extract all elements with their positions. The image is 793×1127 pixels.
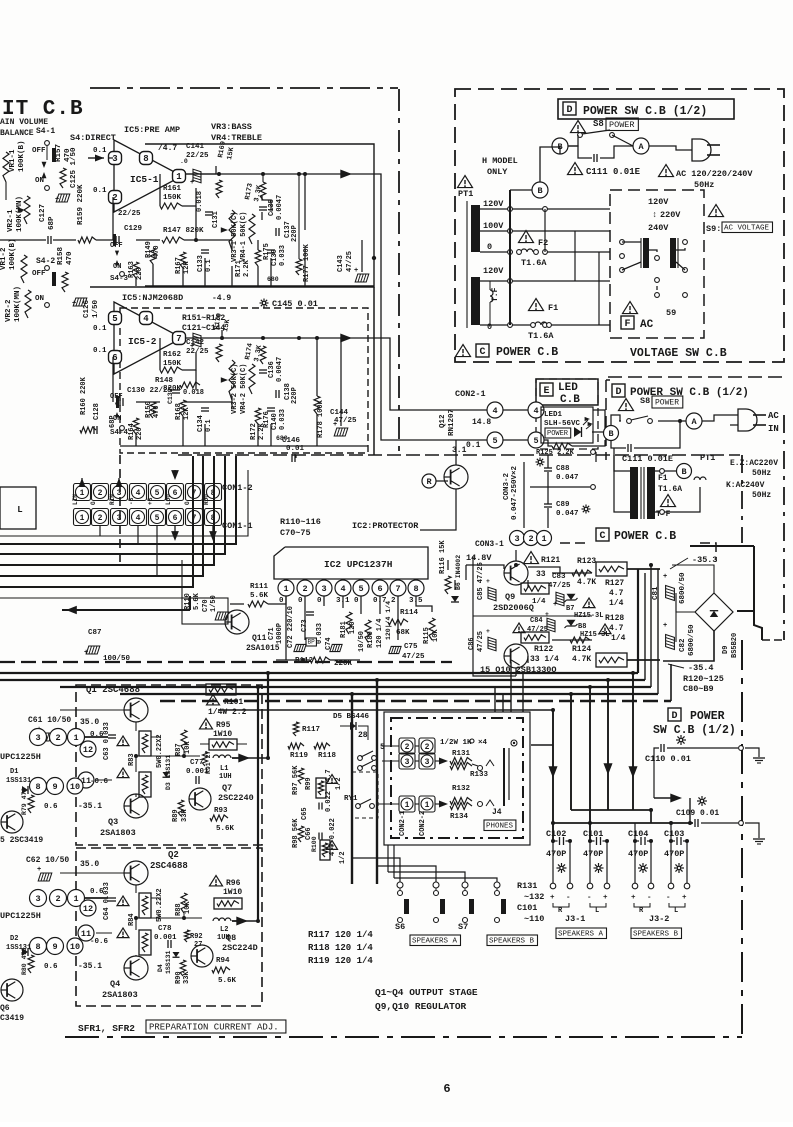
svg-text:1: 1	[80, 514, 85, 523]
wire tap 0	[480, 250, 610, 255]
resistor R94 5.6K	[212, 957, 237, 985]
svg-text:/4.7: /4.7	[158, 144, 177, 153]
svg-text:47/25: 47/25	[527, 626, 548, 634]
svg-text:1: 1	[425, 801, 430, 810]
svg-text:R160 220K: R160 220K	[80, 376, 88, 415]
capacitor C134 0.1	[197, 408, 213, 432]
svg-text:1: 1	[80, 489, 85, 498]
svg-text:100K(MN): 100K(MN)	[14, 286, 22, 322]
fuse F1 b	[694, 477, 706, 480]
label T1.6A b	[658, 485, 682, 494]
label F AC	[621, 302, 654, 331]
label 0 tap	[487, 242, 492, 252]
svg-text:Q2: Q2	[168, 850, 179, 860]
svg-text:R128: R128	[605, 614, 624, 623]
transistor Q8	[191, 945, 213, 967]
label J3-1	[565, 914, 585, 924]
resistor R168 12K	[175, 400, 191, 420]
transistor Q6	[1, 979, 23, 1001]
output ch1 wires	[60, 710, 200, 797]
label PT1 b	[700, 453, 715, 463]
svg-text:SFR1, SFR2: SFR1, SFR2	[78, 1023, 135, 1034]
switch k2	[358, 761, 377, 770]
label 1/2 b	[339, 851, 347, 864]
jack contact V	[486, 760, 494, 766]
op-amp IC5-2	[114, 302, 182, 374]
svg-text:C140: C140	[271, 413, 279, 430]
vlabel 0.033	[316, 623, 324, 644]
svg-text:2: 2	[55, 733, 60, 743]
svg-text:C63 0.033: C63 0.033	[103, 722, 111, 760]
label D3 1SS131	[165, 755, 172, 790]
wire bus upper thin	[0, 470, 248, 598]
svg-text:12: 12	[83, 904, 93, 914]
svg-text:120V: 120V	[483, 266, 504, 276]
svg-text:C143: C143	[337, 255, 345, 272]
diode D3	[163, 772, 170, 777]
IC2 chip outline	[274, 547, 428, 579]
pot VR3-1 zig	[221, 210, 235, 250]
resistor R119	[288, 743, 309, 760]
svg-text:S9:: S9:	[706, 224, 721, 234]
wire c110 row	[654, 748, 738, 798]
warning R121	[524, 552, 561, 565]
AC plug	[692, 139, 720, 161]
svg-text:4: 4	[492, 406, 497, 416]
switch S8b contacts	[627, 416, 653, 423]
svg-text:+: +	[550, 894, 555, 902]
vlabel C74	[325, 637, 333, 650]
wire preamp right vertical	[372, 256, 376, 455]
wire L out arrow	[186, 169, 487, 440]
wire B up	[540, 147, 560, 182]
svg-text:680: 680	[267, 276, 279, 283]
resistor R99 box	[316, 778, 326, 798]
con2 cell 2b	[419, 738, 435, 754]
vlabel C71 1000P	[268, 623, 284, 644]
svg-text:R116 15K: R116 15K	[439, 540, 447, 574]
resistor R123 box	[596, 562, 627, 576]
svg-text:R101: R101	[224, 698, 243, 707]
svg-text:0.001: 0.001	[154, 934, 177, 942]
warning R95	[200, 719, 233, 739]
pot VR2-2	[5, 286, 31, 322]
label R133	[470, 764, 489, 779]
svg-text:6: 6	[173, 489, 178, 498]
svg-text:+: +	[55, 196, 59, 204]
zener D8	[565, 620, 612, 639]
wire bus row2	[0, 569, 638, 673]
capacitor C86 47/25	[468, 628, 496, 652]
svg-text:2SA1803: 2SA1803	[100, 828, 136, 838]
svg-text:470P: 470P	[628, 849, 648, 859]
con3 pins	[510, 531, 552, 546]
svg-text:5: 5	[358, 584, 363, 594]
svg-text:C: C	[599, 531, 605, 542]
fuse F1	[529, 299, 552, 328]
capacitor C136 0.0047	[259, 357, 284, 382]
svg-text:AC: AC	[768, 411, 779, 421]
label UPC1225H ch1	[0, 752, 41, 762]
svg-text:VR3:BASS: VR3:BASS	[211, 122, 252, 132]
svg-text:2: 2	[425, 743, 430, 752]
svg-text:C111 0.01E: C111 0.01E	[622, 454, 673, 464]
diode D1 1SS131	[6, 768, 31, 794]
svg-text:+: +	[190, 343, 194, 351]
label 4.7K q9	[577, 578, 596, 587]
label 50Hz	[694, 180, 714, 190]
label C121-C144	[182, 324, 225, 333]
svg-text:C81: C81	[652, 586, 660, 600]
upc pins ch1 b	[30, 778, 84, 795]
svg-text:R175: R175	[263, 243, 271, 260]
svg-text:R121: R121	[541, 556, 560, 565]
label R101 val	[208, 708, 247, 717]
wire bus speaker verticals	[350, 678, 379, 884]
capacitor C138 220P	[276, 383, 299, 404]
vlabel C73	[301, 619, 309, 632]
warning C111	[568, 163, 583, 175]
svg-text:C85 47/25: C85 47/25	[477, 562, 485, 600]
svg-text:CON2-1: CON2-1	[399, 811, 407, 836]
power sw2 right dashed edge	[783, 415, 785, 640]
svg-text:59: 59	[666, 308, 676, 318]
capacitor C88	[544, 465, 579, 482]
pin 8 IC5-1	[140, 152, 153, 165]
svg-text:PT1: PT1	[458, 189, 473, 199]
AC plug b	[738, 409, 766, 431]
warning R96	[210, 876, 243, 897]
pot VR3-2 zig	[221, 360, 235, 400]
regulator frame	[473, 556, 592, 676]
capacitor C84 47/25	[527, 611, 555, 634]
svg-text:5: 5	[155, 489, 160, 498]
svg-text:6800/50: 6800/50	[679, 572, 687, 604]
svg-text:8: 8	[143, 154, 148, 164]
label EZ AC220V	[730, 459, 778, 468]
svg-text:1W10: 1W10	[223, 888, 242, 897]
label 59	[666, 308, 676, 318]
svg-text:0.0047: 0.0047	[276, 195, 284, 220]
cap c73	[306, 612, 314, 615]
wire bus dashed row6	[160, 664, 671, 701]
svg-text:B: B	[537, 186, 542, 196]
svg-text:470: 470	[153, 245, 161, 258]
label -35.1 ch2	[78, 962, 102, 971]
wire c88 c89	[524, 450, 596, 528]
vlabel R98 56K	[292, 818, 304, 848]
power sw2 top dashed edge	[608, 376, 784, 378]
resistor R163 220	[128, 261, 144, 280]
switch S7b	[495, 888, 507, 923]
svg-text:D1: D1	[10, 768, 18, 776]
svg-text:0.0047: 0.0047	[276, 357, 284, 382]
resistor R118	[314, 743, 337, 760]
svg-text:5W0.22X2: 5W0.22X2	[156, 734, 164, 768]
capacitor C129	[113, 225, 143, 246]
svg-text:2: 2	[302, 584, 307, 594]
IC2 pin voltages	[279, 597, 423, 605]
svg-text:C133: C133	[197, 255, 205, 272]
wire mid connect	[232, 673, 270, 923]
resistor R88 10K	[175, 893, 192, 916]
svg-text:1/4: 1/4	[532, 598, 546, 606]
label 0.1 led	[466, 441, 481, 450]
warning xfmr b	[661, 495, 676, 507]
svg-text:T1.6A: T1.6A	[658, 485, 682, 494]
svg-text:0.1: 0.1	[205, 259, 213, 272]
svg-text:Q1 2SC4688: Q1 2SC4688	[86, 685, 140, 695]
label LED1	[544, 411, 563, 419]
pin 7 IC5-2	[173, 332, 186, 345]
svg-text:0.047: 0.047	[556, 510, 579, 518]
ladder verticals	[510, 190, 599, 325]
resistor R175	[249, 214, 271, 260]
resistor R100 box	[311, 836, 330, 860]
svg-text:68P: 68P	[109, 415, 117, 428]
fuse F2	[517, 231, 549, 255]
warning PT1	[458, 176, 473, 188]
label 100V tap	[483, 221, 504, 231]
label R92 27	[185, 930, 203, 949]
svg-text:AC VOLTAGE: AC VOLTAGE	[724, 225, 770, 233]
svg-text:RY1: RY1	[344, 795, 358, 803]
star C145	[260, 299, 269, 308]
box POWER label	[606, 118, 638, 131]
label F1	[548, 303, 558, 313]
svg-text:G: G	[184, 501, 191, 505]
phones jack bars	[504, 740, 517, 806]
upc pin 11 ch2	[78, 925, 94, 941]
arrow con pin3 up	[116, 478, 123, 487]
con pin 5b	[528, 432, 544, 448]
label 35.0 ch2	[80, 860, 99, 869]
wire led bottom	[544, 440, 605, 446]
arrow con pin1 up	[79, 478, 86, 487]
ground c110	[739, 746, 765, 763]
capacitor C126 1/50	[72, 298, 100, 318]
wire ch R bottom	[120, 445, 368, 447]
resistor R174 3.3K	[244, 343, 266, 364]
svg-text:L: L	[674, 907, 678, 915]
svg-text:R178 100K: R178 100K	[317, 399, 325, 438]
svg-text:68P: 68P	[48, 216, 56, 230]
svg-text:R134: R134	[450, 813, 469, 821]
label Q11 2SA1015	[246, 634, 280, 653]
label 0.018 R	[183, 389, 204, 397]
vlabel 120	[349, 621, 357, 634]
con1 signal labels	[72, 494, 210, 505]
resistor R167 12K	[175, 252, 191, 274]
wire input row L	[0, 239, 113, 241]
svg-text:VR2-1: VR2-1	[7, 209, 15, 232]
svg-text:2SD2006Q: 2SD2006Q	[493, 603, 534, 613]
ic2 wires	[286, 560, 455, 660]
svg-text:LOU: LOU	[165, 494, 172, 505]
label J4	[492, 808, 502, 817]
arrow con pin8b down	[209, 526, 217, 541]
svg-text:1/4W 2.2: 1/4W 2.2	[208, 708, 247, 717]
svg-text:5.6K: 5.6K	[218, 977, 237, 985]
capacitor C82 6800/50	[663, 622, 696, 656]
svg-text:4: 4	[136, 489, 141, 498]
capacitor C85 47/25	[477, 562, 496, 601]
svg-text:VR1-1: VR1-1	[9, 149, 17, 172]
label 0.6 ch2	[90, 888, 104, 896]
wire C145 row	[178, 455, 740, 458]
svg-text:3: 3	[425, 758, 430, 767]
svg-text:R84: R84	[128, 913, 136, 926]
svg-text:VR3-1 50K(C): VR3-1 50K(C)	[231, 212, 239, 262]
preamp wires ch L	[108, 158, 362, 286]
svg-text:Q12: Q12	[439, 414, 447, 428]
resistor R161 150K	[160, 185, 182, 209]
svg-text:R159 220K: R159 220K	[77, 184, 85, 225]
svg-text:OFF: OFF	[110, 242, 123, 250]
svg-text:5: 5	[155, 514, 160, 523]
svg-text:R111: R111	[250, 583, 269, 591]
svg-text:0.022: 0.022	[325, 791, 333, 812]
svg-text:-35.1: -35.1	[78, 802, 102, 811]
bracket L b	[669, 903, 685, 915]
label Q10	[480, 665, 557, 675]
capacitor C78 0.001	[154, 925, 177, 948]
zig r181	[346, 612, 352, 634]
svg-text:SPEAKERS A: SPEAKERS A	[558, 931, 604, 939]
svg-text:L: L	[595, 907, 599, 915]
svg-text:8: 8	[35, 782, 40, 792]
svg-text:F: F	[624, 319, 630, 330]
label D POWER SW CB 13	[653, 708, 736, 737]
svg-text:A: A	[691, 417, 697, 427]
svg-text:1UH: 1UH	[219, 773, 232, 781]
label 220V sel	[652, 210, 681, 220]
resistor R80 470	[21, 948, 34, 975]
resistor R150 470	[145, 401, 161, 418]
svg-text:D: D	[566, 105, 572, 116]
label 4.7	[158, 144, 177, 153]
svg-text:T1.6A: T1.6A	[521, 258, 547, 268]
resistor R93 5.6K	[210, 807, 235, 833]
wire tap 120V	[480, 207, 610, 212]
vlabel 120 1-4 b	[385, 601, 392, 640]
resistor R84 box2	[139, 930, 151, 955]
capacitor C133 0.1	[197, 250, 213, 272]
transistor Q2	[124, 861, 148, 885]
resistor R110 5.6K	[182, 592, 228, 624]
resistor R111 5.6K	[248, 583, 269, 607]
svg-text:120V: 120V	[483, 199, 504, 209]
svg-text:R147 820K: R147 820K	[163, 227, 204, 235]
output block1 dashed box	[76, 685, 262, 845]
page top border dash-dot	[90, 87, 398, 89]
wire out pin7	[186, 330, 487, 410]
con2 cell 2a	[399, 738, 415, 754]
label Q9 Q10 REGULATOR	[375, 1001, 467, 1012]
box BP	[306, 638, 316, 646]
capacitor C102 470P	[546, 829, 572, 884]
svg-text:C71: C71	[268, 627, 276, 640]
label VR3 BASS	[211, 122, 252, 132]
box SPEAKERS A left	[410, 935, 461, 946]
svg-text:T-F: T-F	[656, 510, 671, 519]
vlabel C72 220/10	[287, 606, 295, 648]
capacitor C83 47/25	[548, 573, 571, 609]
bracket R b	[634, 903, 650, 915]
arrow ch1 out	[232, 753, 250, 762]
LED1 box	[541, 407, 593, 443]
svg-text:VR2-2: VR2-2	[5, 299, 13, 322]
svg-text:0.018: 0.018	[183, 389, 204, 397]
svg-text:Q3: Q3	[108, 817, 118, 827]
IC2 pins	[278, 580, 424, 596]
box PHONES	[484, 820, 516, 831]
wire bus row5	[120, 569, 658, 694]
page divider dash-dot vertical	[398, 89, 400, 455]
label VR3-2 50K(C)	[231, 364, 239, 414]
box PREPARATION CURRENT ADJ	[146, 1020, 286, 1033]
vlabel 10/50	[358, 631, 366, 652]
svg-text:+: +	[72, 300, 76, 308]
svg-text:C83: C83	[552, 573, 566, 581]
svg-text:0.1: 0.1	[93, 325, 107, 333]
svg-text:VOLTAGE SW C.B: VOLTAGE SW C.B	[630, 347, 727, 360]
svg-text:×4: ×4	[478, 739, 488, 747]
svg-text:AIN VOLUME: AIN VOLUME	[0, 118, 48, 127]
svg-text:D: D	[615, 387, 621, 398]
transistor Q9	[504, 561, 528, 585]
voltage sw wires	[622, 242, 685, 290]
svg-text:Q6: Q6	[0, 1004, 10, 1013]
resistor R159 220K	[77, 184, 96, 243]
channel R box dashed	[120, 308, 368, 453]
svg-text:C75: C75	[404, 643, 418, 651]
con2 cell 3a	[399, 753, 415, 769]
svg-text:8: 8	[35, 942, 40, 952]
svg-text:6: 6	[443, 1082, 450, 1096]
label 0.1 b	[93, 187, 107, 195]
wire S8 loop	[568, 135, 633, 158]
label -4.9	[212, 294, 231, 303]
svg-text:50Hz: 50Hz	[752, 469, 771, 478]
label IC2 PROTECTOR	[352, 521, 419, 531]
led cb dashed box	[536, 379, 598, 449]
svg-text:L1: L1	[220, 765, 228, 773]
svg-text:R162: R162	[163, 351, 182, 359]
transformer PT1b core	[641, 467, 644, 519]
resistor R122 box	[521, 632, 559, 664]
label 50Hz b	[752, 469, 771, 478]
label 0.6 ch2b	[44, 963, 58, 971]
svg-text:R96: R96	[226, 879, 241, 888]
ground c109	[739, 821, 765, 844]
upc pin 11 ch1	[78, 772, 94, 788]
resistor R83 box2	[139, 772, 151, 797]
svg-text:LIN: LIN	[72, 494, 79, 505]
svg-text:2.2K: 2.2K	[243, 259, 251, 277]
vlabel 47 0022	[329, 818, 337, 856]
svg-text:0.033: 0.033	[316, 623, 324, 644]
svg-text:-: -	[666, 894, 671, 902]
svg-text:100K(B): 100K(B)	[9, 238, 17, 270]
arrow ch2 out	[232, 916, 248, 925]
svg-text:3: 3	[514, 534, 519, 544]
con2 cell 1b	[419, 796, 435, 812]
svg-text:D4: D4	[157, 964, 164, 972]
con pin 5a	[487, 432, 503, 448]
svg-text:3: 3	[117, 489, 122, 498]
wire tap 0b	[480, 323, 610, 328]
